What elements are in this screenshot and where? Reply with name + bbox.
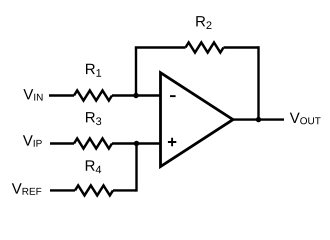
node junction at inverting input [133, 93, 138, 98]
op-amp non-inverting pin mark (+) [168, 138, 176, 146]
resistor R3 [74, 139, 112, 149]
wire V_IN lead to R1 [49, 94, 74, 96]
label VIN [23, 89, 42, 101]
label R3 [86, 112, 101, 125]
resistor R1 [74, 91, 112, 101]
label VREF [12, 183, 42, 195]
wire V_IP lead to R3 [50, 142, 74, 144]
wire op-amp output [233, 118, 284, 120]
label R1 [86, 64, 101, 77]
label VOUT [290, 113, 321, 125]
wire feedback top left horizontal [135, 46, 186, 48]
resistor R4 [75, 185, 113, 195]
op-amp U1 [161, 73, 234, 167]
resistor R2 [186, 43, 224, 53]
label VIP [23, 135, 42, 147]
label R4 [86, 160, 101, 173]
wire feedback top right horizontal [224, 46, 259, 48]
wire V_REF lead to R4 [50, 189, 75, 191]
wire R3 to non-inverting input [112, 142, 161, 144]
wire R4 to vertical riser [113, 189, 137, 191]
label R2 [196, 16, 211, 29]
node junction at non-inverting input [134, 141, 139, 146]
node junction at output [256, 117, 261, 122]
wire feedback right vertical [257, 46, 259, 119]
wire R1 to inverting input [112, 94, 161, 96]
op-amp inverting pin mark (-) [170, 95, 176, 97]
wire riser to non-inverting node [135, 144, 137, 192]
wire feedback left vertical [135, 48, 137, 96]
